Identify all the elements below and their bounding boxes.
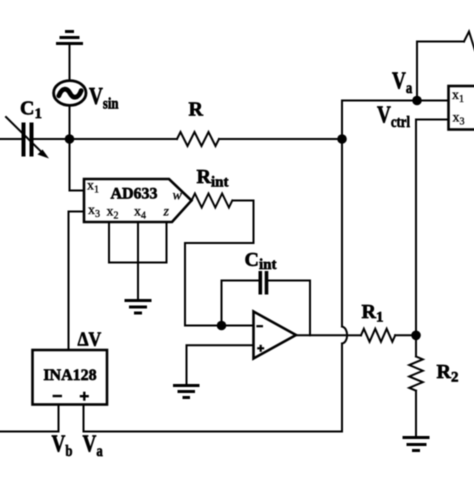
wire Vsin to node [69, 105, 71, 139]
ground below AD633 [125, 301, 152, 314]
svg-text:R: R [189, 99, 204, 121]
wire x2 x4 z to ground bracket [109, 222, 167, 300]
ground below R2 [403, 438, 430, 451]
svg-text:ΔV: ΔV [78, 329, 102, 351]
wire R to node [219, 138, 342, 140]
wire Vctrl down to R1 node [415, 120, 417, 336]
wire op-amp output [296, 334, 345, 336]
op-amp plus [257, 345, 264, 352]
wire bottom right rail [84, 431, 343, 433]
resistor partial top right [464, 32, 474, 51]
wire node to x1 [70, 139, 85, 191]
INA128 plus [80, 392, 89, 401]
svg-text:w: w [173, 189, 183, 204]
resistor R [177, 132, 219, 146]
wire Va up to top [417, 42, 464, 101]
ground at op-amp [173, 386, 200, 398]
vertical from node down [341, 139, 343, 327]
wire plus input to ground [187, 345, 254, 384]
node main junction [65, 134, 75, 144]
wire feedback right [268, 281, 310, 336]
capacitor Cint [259, 271, 269, 295]
wire INA128 plus down [83, 405, 85, 432]
wire left edge to C1 [0, 138, 22, 140]
wire node to R2 [415, 335, 417, 356]
amplifier INA128 [33, 350, 108, 405]
wire bottom left rail [0, 431, 59, 433]
wire Vctrl to box x3 [416, 119, 449, 121]
resistor R1 [361, 329, 395, 342]
wire INA128 minus down [58, 405, 60, 432]
resistor R2 [409, 357, 423, 391]
node at 342,139 [337, 134, 347, 144]
resistor Rint [192, 194, 233, 208]
source Vsin [54, 81, 86, 106]
box right (clipped) [449, 86, 474, 130]
node inverting input [217, 321, 227, 331]
wire Rint to integrator input [185, 201, 254, 326]
wire output to R1 [348, 334, 361, 336]
capacitor C1 [6, 117, 49, 159]
svg-text:INA128: INA128 [43, 367, 96, 384]
wire node up to Va line [342, 101, 417, 140]
INA128 minus [53, 395, 62, 397]
wire C1 to R [34, 138, 178, 140]
multiplier AD633 [84, 179, 192, 222]
svg-text:z: z [163, 205, 170, 220]
wire feedback left [222, 281, 259, 326]
wire hop [342, 327, 347, 344]
op-amp U1 [254, 312, 297, 359]
ground (flipped, above Vsin) [56, 32, 83, 44]
wire R2 to ground [415, 391, 417, 437]
node R1 R2 [411, 331, 421, 341]
op-amp minus [256, 325, 263, 327]
node Va [412, 96, 422, 106]
svg-text:AD633: AD633 [110, 186, 157, 203]
wire x3 to INA128 [69, 212, 85, 351]
wire ground to Vsin [69, 44, 71, 81]
wire Va to box x1 [417, 100, 449, 102]
wire R1 to node [395, 334, 416, 336]
